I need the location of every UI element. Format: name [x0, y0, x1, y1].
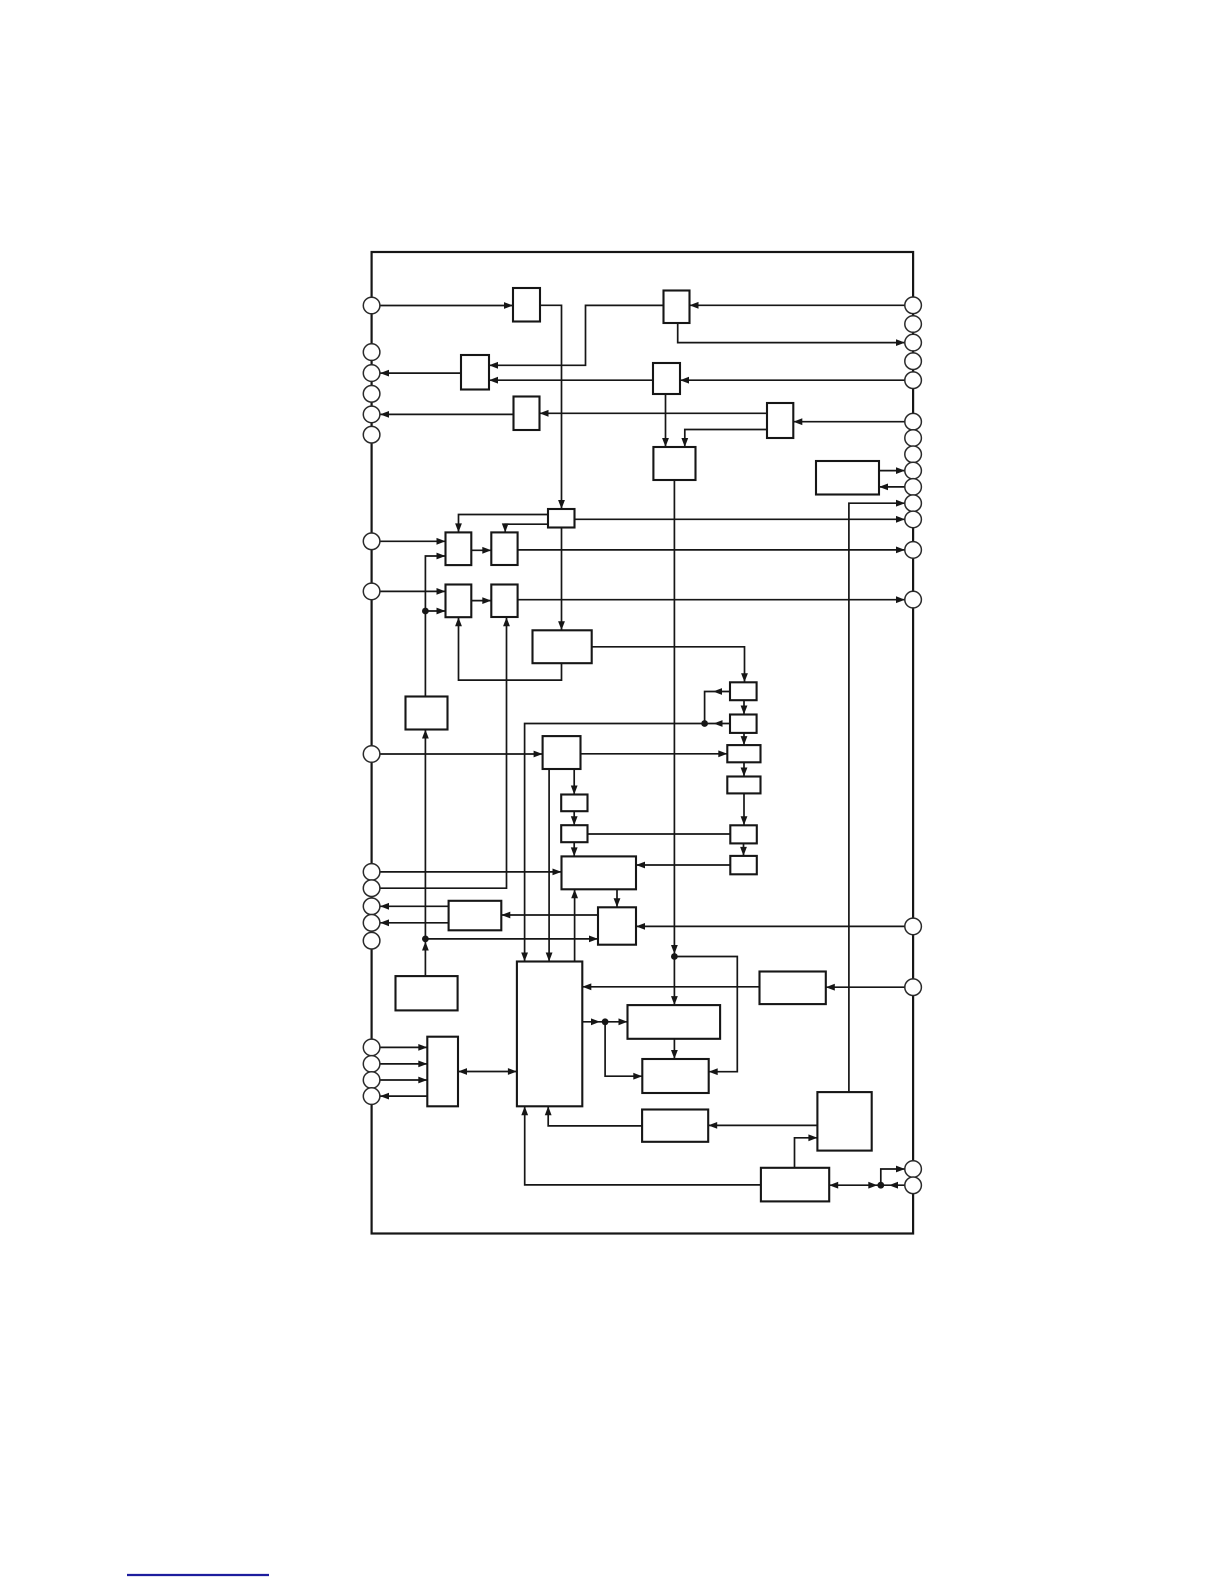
pin R6 [905, 413, 922, 430]
pin L15 [363, 1039, 380, 1056]
wire junction J5 to block B33 input [605, 1022, 642, 1080]
wire block B13 output to pin R14 [518, 596, 905, 603]
block B22 [561, 825, 587, 842]
block B34 [817, 1092, 871, 1151]
block B32 [427, 1037, 458, 1107]
block B19 [727, 745, 760, 762]
wire block B18 output to block B19 input [581, 750, 728, 757]
block B9 [548, 509, 575, 528]
wire block B32 bus to block B28 [458, 1068, 517, 1075]
wire pin L15 to block B32 input [380, 1044, 427, 1051]
block B4 [653, 363, 680, 394]
wire block B2 bottom to pin R3 [678, 323, 905, 346]
block B26 [449, 901, 502, 931]
block B21 [561, 795, 587, 812]
wire pin L8 to block B12 input [380, 588, 446, 595]
pin L18 [363, 1088, 380, 1105]
pin R8 [905, 446, 922, 463]
wire block B36 output to block B28 bottom [521, 1106, 761, 1185]
block B30 [760, 972, 826, 1005]
pin L3 [363, 365, 380, 382]
wire pin L10 to block B25 input [380, 869, 562, 876]
wire block B14 feedback to block B12 bottom [455, 617, 561, 680]
wire block B16 bottom to block B17 top [741, 700, 748, 714]
wire block B14 output to block B16 top [592, 647, 748, 683]
block B35 [642, 1110, 708, 1142]
pin R15 [905, 918, 922, 935]
wire block B9 output to block B11 top [502, 523, 548, 532]
block B8 [816, 461, 879, 495]
wire block B26 output to pin L12 [380, 903, 449, 910]
pin L4 [363, 386, 380, 403]
pin R11 [905, 495, 922, 512]
block B14 [533, 630, 592, 663]
wire pin L17 to block B32 input [380, 1077, 427, 1084]
wire block B28 top to block B25 bottom [571, 889, 578, 961]
pin R3 [905, 334, 922, 351]
pin R7 [905, 430, 922, 447]
pin R2 [905, 316, 922, 333]
wire block B3 output to pin L3 [380, 370, 461, 377]
wire block B34 top to pin R11 [849, 500, 905, 1092]
pin R17 [905, 1161, 922, 1178]
pin L6 [363, 426, 380, 443]
wire block B12 output to block B13 input [471, 597, 491, 604]
wire block B22 bottom to block B25 top [571, 842, 578, 856]
wire block B11 output to pin R13 [518, 547, 905, 554]
pin R1 [905, 297, 922, 314]
block B33 [642, 1059, 708, 1093]
wire block B24 output to block B25 input [636, 862, 730, 869]
wire block B25 bottom to block B27 top [614, 889, 621, 907]
block B17 [730, 715, 757, 733]
block B18 [543, 736, 581, 769]
wire pin R18 to junction J6 to block B36 input [829, 1182, 905, 1189]
wire block B9 output to pin R12 [575, 516, 906, 523]
pin L1 [363, 297, 380, 314]
wire block B31 bottom to block B33 top [671, 1039, 678, 1059]
wire block B8 output to pin R9 [879, 467, 905, 474]
wire block B20 bottom to block B23 top [741, 793, 748, 825]
footer blue underline [127, 1574, 269, 1576]
pin L17 [363, 1072, 380, 1089]
block B29 [396, 976, 458, 1010]
block B31 [628, 1005, 721, 1039]
wire block B17 output to junction J3 [701, 720, 730, 727]
pin L2 [363, 344, 380, 361]
wire pin L11 to block B13 bottom [380, 617, 510, 888]
wire block B6 output to block B7 top [681, 430, 767, 448]
pin L7 [363, 533, 380, 550]
pin R4 [905, 353, 922, 370]
block B24 [730, 856, 757, 874]
pin L11 [363, 880, 380, 897]
wire pin L9 to block B18 input [380, 751, 543, 758]
block B36 [761, 1168, 829, 1202]
block B10 [446, 532, 472, 565]
wire pin R16 to block B30 input [826, 984, 905, 991]
wire block B28 output to junction J5 to block B31 input [582, 1018, 627, 1025]
wire block B1 output to block B9 top [540, 305, 565, 509]
wire block B35 output to block B28 bottom [545, 1106, 642, 1126]
wire block B18 bottom to block B28 top [546, 769, 553, 962]
block B15 [406, 697, 448, 730]
wire junction J1 bypass to block B33 input [674, 957, 737, 1076]
block B16 [730, 682, 757, 700]
pin L9 [363, 746, 380, 763]
wire pin R6 to block B6 input [793, 418, 905, 425]
wire junction J3 to block B28 top [521, 724, 704, 962]
pin R13 [905, 542, 922, 559]
wire block B5 output to pin L5 [380, 411, 514, 418]
wire pin R10 to block B8 input [879, 484, 905, 491]
block B3 [461, 355, 489, 390]
wire junction J2 branch to block B12 input [425, 608, 445, 615]
wire pin L16 to block B32 input [380, 1061, 427, 1068]
wire pin R5 to block B4 input [680, 377, 905, 384]
wire pin L1 to block B1 input [380, 302, 513, 309]
wire junction J6 to pin R17 [881, 1166, 905, 1186]
block B5 [514, 397, 540, 431]
wire block B9 output to block B10 top [455, 515, 548, 533]
pin L10 [363, 864, 380, 881]
wire block B18 bottom to block B21 top [571, 769, 578, 795]
block B7 [653, 447, 695, 480]
block B12 [446, 585, 472, 618]
block B11 [491, 532, 517, 565]
block B23 [730, 825, 757, 843]
wire junction J1 to block B31 top [671, 953, 678, 1005]
wire junction J4 to block B27 input [425, 936, 598, 943]
block B6 [767, 403, 793, 438]
wire block B27 output to block B26 input [501, 912, 598, 919]
block B1 [513, 288, 540, 322]
wire block B21 bottom to block B22 top [571, 811, 578, 825]
wire block B4 output to block B3 input [489, 377, 653, 384]
pin L16 [363, 1056, 380, 1073]
wire block B9 bottom to block B14 top [558, 528, 565, 631]
block B25 [562, 856, 637, 889]
block B2 [664, 291, 690, 324]
pin R14 [905, 591, 922, 608]
pin R10 [905, 479, 922, 496]
block B28 [517, 962, 582, 1107]
wire block B36 top to block B34 input [795, 1134, 818, 1167]
wire junction J4 up to block B15 bottom [422, 730, 429, 951]
wire block B16 feedback to junction J3 [705, 688, 730, 723]
pin R18 [905, 1177, 922, 1194]
wire block B34 output to block B35 input [708, 1122, 817, 1129]
wire block B17 bottom to block B19 top [741, 733, 748, 745]
wire block B26 output to pin L13 [380, 919, 449, 926]
wire block B15 output to blocks B10 B12 via junction J2 [422, 553, 446, 697]
wire block B6 output to block B5 input [540, 410, 768, 417]
pin R12 [905, 511, 922, 528]
block B27 [598, 907, 636, 944]
block B13 [491, 585, 517, 618]
pin R9 [905, 462, 922, 479]
pin L8 [363, 583, 380, 600]
wire block B23 bottom to block B24 top [740, 843, 747, 856]
pin L12 [363, 898, 380, 915]
wire block B32 output to pin L18 [380, 1093, 427, 1100]
wire block B22 output to block B23 input [588, 833, 731, 835]
chip outline border [372, 252, 914, 1234]
block B20 [727, 777, 760, 794]
wire pin R15 to block B27 input [636, 923, 905, 930]
wire block B2 output to block B3 input [489, 305, 664, 368]
wire block B4 bottom to block B7 top [662, 394, 669, 447]
wire pin L7 to block B10 input [380, 538, 446, 545]
pin L14 [363, 932, 380, 949]
wire block B10 output to block B11 input [471, 547, 491, 554]
wire pin R1 to block B2 input [690, 302, 906, 309]
pin R5 [905, 372, 922, 389]
wire block B30 output to block B28 input [582, 983, 759, 990]
pin L5 [363, 406, 380, 423]
pin R16 [905, 979, 922, 996]
pin L13 [363, 915, 380, 932]
wire block B19 bottom to block B20 top [741, 762, 748, 776]
wire block B7 bottom to junction J1 [671, 480, 678, 957]
wire block B29 top to junction J4 [424, 939, 426, 976]
